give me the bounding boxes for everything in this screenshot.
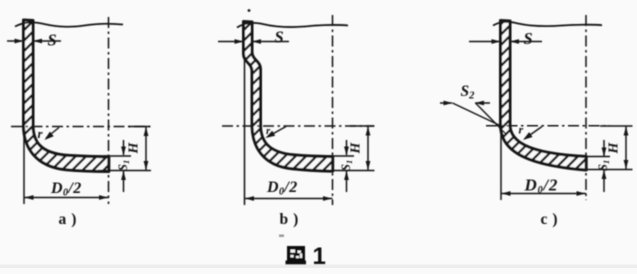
svg-text:H: H xyxy=(349,142,364,155)
svg-text:H: H xyxy=(607,142,622,155)
svg-text:r: r xyxy=(266,125,271,137)
svg-text:r: r xyxy=(519,123,524,137)
svg-text:S: S xyxy=(48,31,57,50)
svg-text:1: 1 xyxy=(313,243,326,270)
svg-text:S: S xyxy=(524,29,533,48)
svg-text:H: H xyxy=(127,142,142,155)
svg-text:S: S xyxy=(275,28,284,47)
